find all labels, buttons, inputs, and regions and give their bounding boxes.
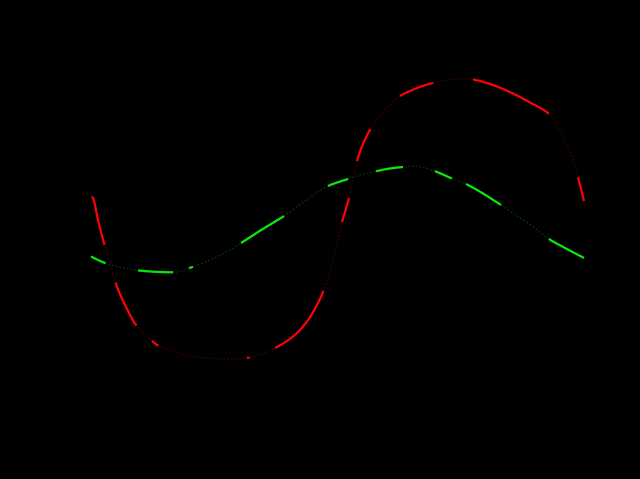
- green curve: dim dotted base trace: [91, 166, 584, 272]
- red curve: bright dash segments: [92, 80, 584, 359]
- green curve: bright dash segments: [91, 167, 584, 272]
- red curve: dim dotted base trace: [91, 79, 584, 359]
